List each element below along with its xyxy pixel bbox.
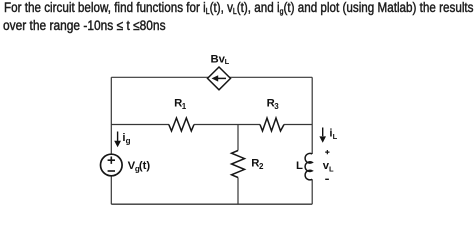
source Vg minus sign [108,170,115,172]
source Vg circle [101,154,123,176]
source Vg plus sign [108,157,115,164]
wire middle rail center segment [194,124,260,126]
svg-text:(t): (t) [139,160,151,172]
wire middle rail left segment [111,124,169,126]
svg-text:Bv: Bv [211,53,226,65]
resistor R2 [232,151,245,178]
svg-text:1: 1 [182,102,187,111]
inductor L coil [305,153,312,179]
label vL plus polarity [325,150,329,154]
svg-text:3: 3 [274,102,279,111]
svg-text:L: L [225,57,230,66]
svg-text:L: L [329,165,334,174]
svg-text:L: L [333,132,338,141]
wire left branch [110,77,112,204]
svg-text:g: g [126,136,131,145]
wire top rail [111,76,312,78]
wire right branch upper [311,77,313,154]
wire R2 branch lower [237,178,239,205]
dependent source BvL diamond [208,67,231,90]
label vL minus polarity [325,178,329,180]
resistor R1 [169,118,194,131]
resistor R3 [260,118,284,131]
wire middle rail right segment [284,124,312,126]
arrow iL [322,128,324,137]
arrow ig [117,132,119,142]
wire R2 branch upper [237,125,239,151]
wire bottom rail [111,203,312,205]
svg-text:2: 2 [259,162,264,171]
svg-text:L: L [296,160,303,172]
wire right branch lower [311,179,313,204]
dependent source arrow [217,77,226,79]
